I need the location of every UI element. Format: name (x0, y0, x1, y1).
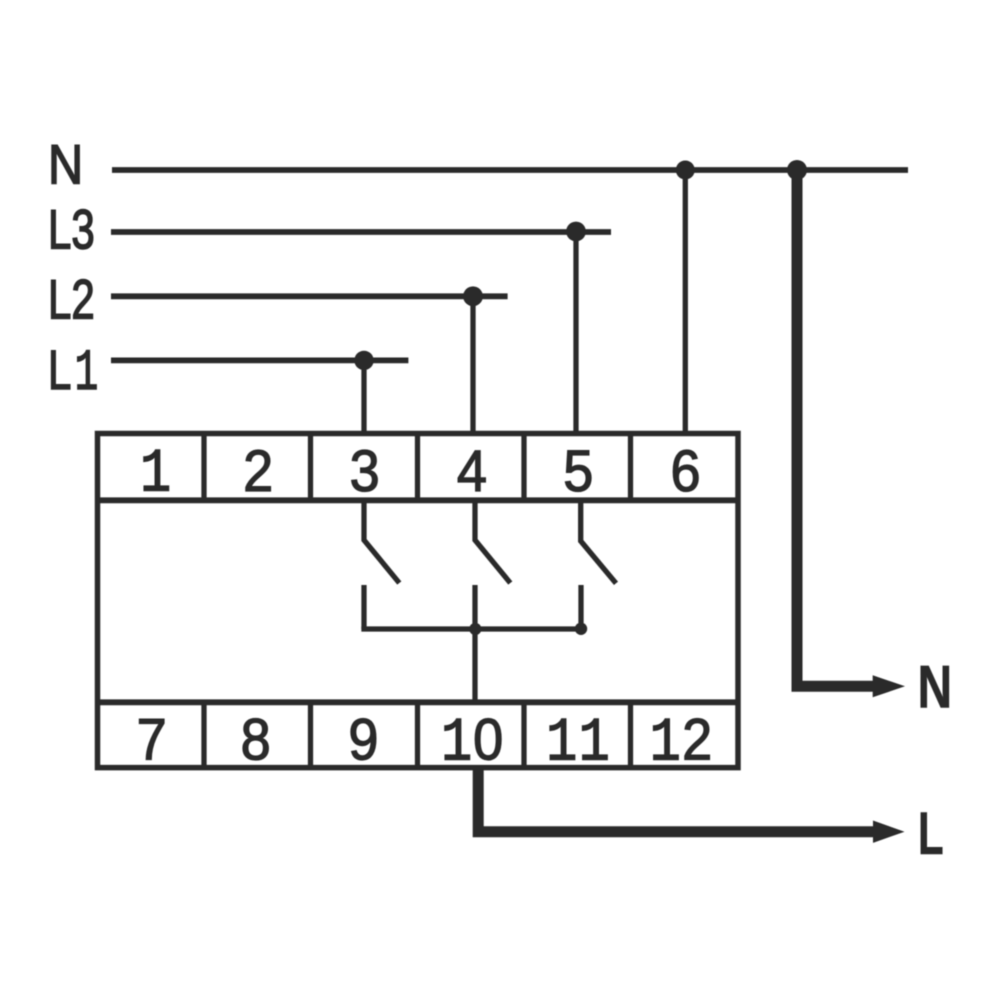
svg-text:1: 1 (140, 441, 171, 510)
svg-text:2: 2 (243, 438, 273, 503)
terminal divider 1-2 (201, 434, 206, 501)
svg-text:6: 6 (670, 438, 700, 503)
thick wire L output (478, 768, 874, 832)
switch SW1 output stub (361, 585, 366, 629)
common output bus (364, 627, 581, 630)
svg-text:L2: L2 (48, 269, 95, 331)
svg-text:L: L (918, 800, 944, 867)
svg-text:1: 1 (650, 710, 681, 779)
terminal divider 3-4 (415, 434, 420, 501)
terminal 11 label (546, 710, 609, 779)
svg-text:N: N (918, 653, 953, 720)
svg-text:N: N (48, 133, 83, 196)
junction dot L1 (354, 351, 373, 370)
wire L1 (111, 357, 408, 363)
switch SW3 input stub and blade (581, 500, 616, 583)
svg-text:7: 7 (137, 707, 167, 772)
top terminal row bottom line (98, 497, 739, 503)
svg-text:9: 9 (348, 707, 378, 772)
terminal divider 9-10 (415, 702, 420, 767)
terminal divider 11-12 (628, 702, 633, 767)
terminal 10 label (441, 707, 503, 779)
svg-text:4: 4 (457, 438, 487, 503)
bottom terminal row top line (98, 699, 739, 705)
wire L3 (111, 229, 611, 235)
terminal divider 8-9 (308, 702, 313, 767)
node L1 label (48, 339, 98, 406)
arrowhead L output (873, 821, 905, 843)
terminal divider 4-5 (521, 434, 526, 501)
terminal divider 2-3 (308, 434, 313, 501)
junction dot N thick takeoff (787, 160, 807, 180)
switch SW3 output stub (578, 585, 583, 629)
svg-text:5: 5 (563, 438, 593, 503)
svg-text:L: L (48, 339, 71, 401)
svg-text:8: 8 (241, 707, 271, 772)
svg-text:1: 1 (546, 710, 577, 779)
svg-text:1: 1 (441, 710, 472, 779)
wire L2 (111, 293, 508, 299)
terminal divider 10-11 (521, 702, 526, 767)
svg-text:2: 2 (682, 707, 712, 772)
terminal divider 7-8 (201, 702, 206, 767)
wire L2 to terminal 4 (470, 296, 475, 434)
switch SW1 input stub and blade (364, 500, 399, 583)
wire L1 to terminal 3 (361, 360, 366, 434)
junction dot common bus right (575, 623, 587, 635)
thick wire N output (797, 170, 874, 686)
svg-text:3: 3 (350, 438, 380, 503)
switch SW2 output stub to terminal 10 (472, 585, 477, 702)
wire L3 to terminal 5 (573, 232, 578, 434)
terminal 12 label (650, 707, 712, 779)
wire N to terminal 6 (683, 170, 688, 434)
wire N bus (112, 167, 908, 173)
svg-text:1: 1 (579, 710, 610, 779)
junction dot L2 (463, 286, 483, 306)
svg-text:0: 0 (473, 707, 503, 772)
svg-text:L3: L3 (48, 199, 95, 261)
arrowhead N output (873, 675, 905, 697)
relay box outline (98, 434, 739, 768)
svg-text:1: 1 (75, 341, 99, 406)
terminal divider 5-6 (628, 434, 633, 501)
junction dot L3 (566, 222, 586, 242)
junction dot common bus center (469, 623, 481, 635)
switch SW2 input stub and blade (475, 500, 510, 583)
junction dot N to terminal 6 (676, 161, 695, 180)
